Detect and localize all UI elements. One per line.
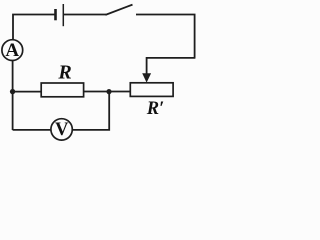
wire switch contact to top-right corner down right side xyxy=(136,15,195,58)
wire ammeter bottom down through node A to bottom-left corner xyxy=(12,60,14,130)
rheostat R' body xyxy=(130,83,173,97)
resistor R body xyxy=(41,83,83,97)
rheostat wiper arrowhead xyxy=(142,73,151,82)
wire bottom-left corner to voltmeter xyxy=(13,129,51,131)
wire rheostat left terminal to node B xyxy=(108,91,130,93)
svg-text:A: A xyxy=(5,40,19,61)
node B junction dot xyxy=(106,89,111,94)
battery cell short plate (negative) xyxy=(54,9,57,20)
svg-text:R: R xyxy=(57,62,71,84)
wire resistor R left end to node A xyxy=(13,91,42,93)
svg-text:V: V xyxy=(55,119,69,140)
wire node B to resistor R right end xyxy=(84,91,110,93)
switch blade (open) xyxy=(106,5,133,15)
wire right side to wiper stem xyxy=(147,58,196,75)
ammeter A1 circle xyxy=(2,40,23,61)
voltmeter V1 circle xyxy=(51,119,72,140)
wire battery to switch pivot xyxy=(64,14,106,16)
wire voltmeter to bottom-right corner up to node B xyxy=(72,92,109,130)
battery cell long plate (positive) xyxy=(62,4,64,26)
svg-text:R′: R′ xyxy=(146,99,165,119)
wire top-left (ammeter top to corner to battery) xyxy=(13,15,55,40)
node A junction dot xyxy=(10,89,15,94)
